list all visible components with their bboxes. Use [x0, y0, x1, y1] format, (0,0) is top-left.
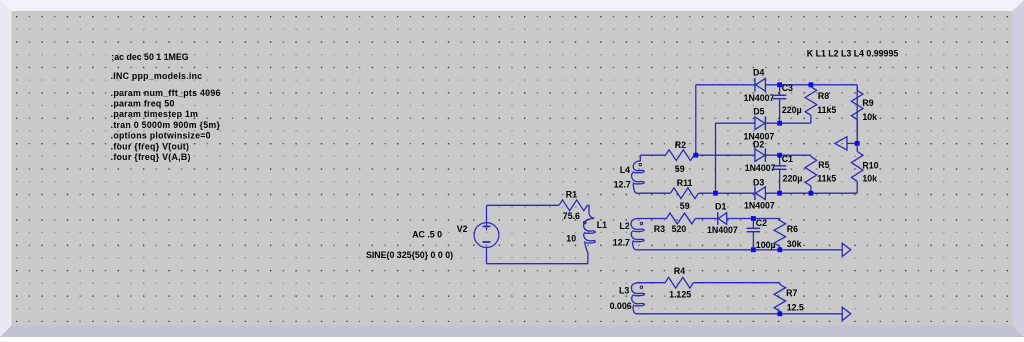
inductor L1 [584, 205, 596, 263]
svg-text:C3: C3 [782, 83, 793, 93]
inductor L3 [631, 283, 644, 314]
value 12.7 (L2) [613, 238, 630, 248]
value AC .5 0 [412, 230, 442, 240]
wire R4 to R7 [693, 282, 779, 284]
wire R11 to vertical node [698, 192, 715, 194]
value 220u (C3) [782, 105, 802, 115]
svg-text:R7: R7 [786, 288, 797, 298]
wire arrow to R9/R10 node [847, 142, 857, 144]
svg-text:R4: R4 [674, 266, 685, 276]
svg-text:.INC ppp_models.inc: .INC ppp_models.inc [111, 71, 203, 81]
label D2 [753, 139, 764, 149]
resistor R5 [805, 155, 817, 193]
junction R5 bottom [809, 191, 814, 196]
phase dot L3 [640, 286, 643, 289]
wire D1 to C2 node [727, 218, 780, 220]
value 520 [672, 224, 687, 234]
svg-text:10k: 10k [862, 174, 877, 184]
value 11k5 (R5) [817, 174, 836, 184]
svg-text:100µ: 100µ [756, 240, 776, 250]
svg-text:R8: R8 [818, 91, 829, 101]
value 100u (C2) [756, 240, 776, 250]
svg-text:D5: D5 [753, 107, 764, 117]
label D1 [715, 202, 726, 212]
voltage source V2 [474, 222, 499, 247]
value SINE(0 325{50} 0 0 0) [366, 250, 453, 260]
svg-text:1N4007: 1N4007 [744, 93, 775, 103]
label R4 [674, 266, 685, 276]
svg-text:L4: L4 [620, 165, 630, 175]
svg-text:.param freq 50: .param freq 50 [111, 99, 175, 109]
svg-text:10k: 10k [862, 112, 877, 122]
resistor R10 [851, 143, 863, 188]
junction C3 top [777, 82, 782, 87]
wire L3 top row [638, 282, 665, 284]
phase dot L2 [640, 222, 643, 225]
wire V2 bottom [487, 263, 588, 265]
svg-text:R11: R11 [677, 178, 693, 188]
value 0.006 [610, 301, 632, 311]
junction R8 top [809, 82, 814, 87]
wire L4 to R2 [640, 154, 665, 156]
label R5 [818, 160, 829, 170]
wire V2 vertical top [486, 205, 488, 223]
label L3 [619, 285, 629, 295]
junction R6 bottom [777, 247, 782, 252]
svg-text:.param timestep 1m: .param timestep 1m [111, 109, 199, 119]
svg-text:.param num_fft_pts 4096: .param num_fft_pts 4096 [111, 88, 221, 98]
svg-text:1N4007: 1N4007 [744, 201, 775, 211]
svg-text:220µ: 220µ [782, 105, 802, 115]
capacitor C1 [773, 155, 787, 193]
svg-text:1.125: 1.125 [669, 290, 691, 300]
resistor R8 [805, 85, 817, 119]
svg-text:D4: D4 [753, 68, 764, 78]
junction R7 bottom [777, 311, 782, 316]
value 12.7 [614, 179, 631, 189]
label R3 [654, 224, 665, 234]
label D5 [753, 107, 764, 117]
svg-text:.four {freq} V(out): .four {freq} V(out) [111, 141, 190, 151]
svg-text:R2: R2 [675, 140, 686, 150]
value 1.125 [669, 290, 691, 300]
diode D4 [755, 78, 766, 92]
wire D5 row [716, 119, 811, 123]
resistor R1 [559, 200, 587, 211]
wire L3 bottom row [640, 313, 842, 315]
value 1N4007 (D5) [744, 131, 775, 141]
junction R2 right node [693, 153, 698, 158]
label R11 [677, 178, 693, 188]
wire R10 bottom to D3 row [856, 188, 858, 194]
svg-text:1N4007: 1N4007 [707, 225, 738, 235]
directive block .param/.tran/.options/.four [111, 88, 221, 162]
resistor R3 [666, 213, 695, 224]
value 1N4007 (D4) [744, 93, 775, 103]
wire R3 to D1 [695, 218, 717, 220]
label D4 [753, 68, 764, 78]
wire V2 top [487, 204, 560, 206]
net arrow output row 2 [842, 307, 851, 320]
value 10 [566, 234, 576, 244]
wire V2 vertical bottom [486, 247, 488, 264]
svg-text:220µ: 220µ [783, 174, 803, 184]
label R7 [786, 288, 797, 298]
svg-text:0.006: 0.006 [610, 301, 632, 311]
svg-text:520: 520 [672, 224, 687, 234]
inductor L2 [631, 219, 644, 250]
label C2 [756, 218, 767, 228]
junction C1 bottom [777, 191, 782, 196]
phase dot L1 [584, 221, 587, 224]
value 220u (C1) [783, 174, 803, 184]
resistor R6 [774, 219, 786, 250]
svg-text:D3: D3 [753, 177, 764, 187]
wire vertical from top rail to R2 node [695, 85, 697, 155]
svg-text:L3: L3 [619, 285, 629, 295]
wire R1 to L1 [587, 204, 589, 206]
value 59 (R11) [680, 201, 690, 211]
svg-text:V2: V2 [457, 224, 468, 234]
junction C1 top [777, 153, 782, 158]
value 75.6 [563, 211, 580, 221]
svg-text:R5: R5 [818, 160, 829, 170]
svg-text:C1: C1 [782, 154, 793, 164]
svg-text:R10: R10 [862, 160, 878, 170]
svg-text:R6: R6 [787, 224, 798, 234]
svg-text:SINE(0 325{50} 0 0 0): SINE(0 325{50} 0 0 0) [366, 250, 453, 260]
value 10k (R9) [862, 112, 877, 122]
svg-text:R1: R1 [566, 190, 577, 200]
svg-text:59: 59 [680, 201, 690, 211]
svg-text:12.5: 12.5 [787, 302, 804, 312]
capacitor C2 [747, 219, 761, 250]
svg-text:11k5: 11k5 [817, 105, 836, 115]
diode D2 [755, 148, 766, 162]
svg-text:.options plotwinsize=0: .options plotwinsize=0 [111, 131, 211, 141]
wire L2 bottom row [640, 249, 843, 251]
resistor R11 [671, 188, 699, 199]
resistor R4 [665, 277, 693, 288]
svg-text:AC .5 0: AC .5 0 [412, 230, 442, 240]
wire vertical D5 to R11 node [715, 123, 717, 193]
svg-text:D1: D1 [715, 202, 726, 212]
window frame bevel [0, 0, 1024, 11]
inductor L4 [632, 155, 645, 193]
value 10k (R10) [862, 174, 877, 184]
label L2 [619, 221, 629, 231]
resistor R7 [774, 283, 786, 314]
junction C2 top [751, 216, 756, 221]
svg-text:1N4007: 1N4007 [745, 163, 776, 173]
wire L4 to R11 [640, 192, 671, 194]
label R2 [675, 140, 686, 150]
svg-text:12.7: 12.7 [614, 179, 631, 189]
wire L2 top row [638, 218, 666, 220]
label L1 [597, 220, 607, 230]
svg-text:11k5: 11k5 [817, 174, 836, 184]
value 1N4007 (D3) [744, 201, 775, 211]
label R1 [566, 190, 577, 200]
svg-text:C2: C2 [756, 218, 767, 228]
net arrow (left) at R9-R10 node [835, 137, 847, 150]
svg-text:D2: D2 [753, 139, 764, 149]
value 30k [787, 239, 802, 249]
directive .INC ppp_models.inc [111, 71, 203, 81]
label V2 [457, 224, 468, 234]
svg-text:L2: L2 [619, 221, 629, 231]
value 1N4007 (D1) [707, 225, 738, 235]
junction R11 right node [713, 191, 718, 196]
svg-text:L1: L1 [597, 220, 607, 230]
net arrow output row 1 [842, 243, 851, 256]
junction C3 bottom [777, 121, 782, 126]
svg-text:.tran 0 5000m 900m {5m}: .tran 0 5000m 900m {5m} [111, 120, 221, 130]
svg-text:R3: R3 [654, 224, 665, 234]
resistor R2 [666, 150, 695, 161]
label L4 [620, 165, 630, 175]
resistor R9 [851, 86, 863, 143]
label C3 [782, 83, 793, 93]
diode D5 [755, 116, 766, 130]
capacitor C3 [773, 85, 787, 123]
svg-text:10: 10 [566, 234, 576, 244]
wire D3 row [716, 192, 858, 194]
wire D2 row [696, 154, 811, 156]
label R10 [862, 160, 878, 170]
svg-text:30k: 30k [787, 239, 802, 249]
directive ;ac dec 50 1 1MEG [111, 52, 188, 62]
phase dot L4 [639, 163, 642, 166]
directive K L1 L2 L3 L4 0.99995 [807, 49, 899, 59]
label D3 [753, 177, 764, 187]
svg-text:;ac dec 50 1 1MEG: ;ac dec 50 1 1MEG [111, 52, 188, 62]
label C1 [782, 154, 793, 164]
svg-text:R9: R9 [862, 98, 873, 108]
svg-text:.four {freq} V(A,B): .four {freq} V(A,B) [111, 152, 191, 162]
wire top rail (D4 row) [696, 84, 857, 86]
value 1N4007 (D2) [745, 163, 776, 173]
value 59 (R2) [675, 164, 685, 174]
junction R9-R10 node [855, 141, 860, 146]
diode D1 [718, 212, 727, 225]
label R9 [862, 98, 873, 108]
value 12.5 [787, 302, 804, 312]
label R6 [787, 224, 798, 234]
diode D3 [755, 186, 766, 200]
junction C2 bottom [751, 247, 756, 252]
svg-text:K L1 L2 L3 L4 0.99995: K L1 L2 L3 L4 0.99995 [807, 49, 899, 59]
svg-text:75.6: 75.6 [563, 211, 580, 221]
wire R9 branch vertical [856, 85, 858, 144]
label R8 [818, 91, 829, 101]
svg-text:59: 59 [675, 164, 685, 174]
svg-text:12.7: 12.7 [613, 238, 630, 248]
value 11k5 (R8) [817, 105, 836, 115]
